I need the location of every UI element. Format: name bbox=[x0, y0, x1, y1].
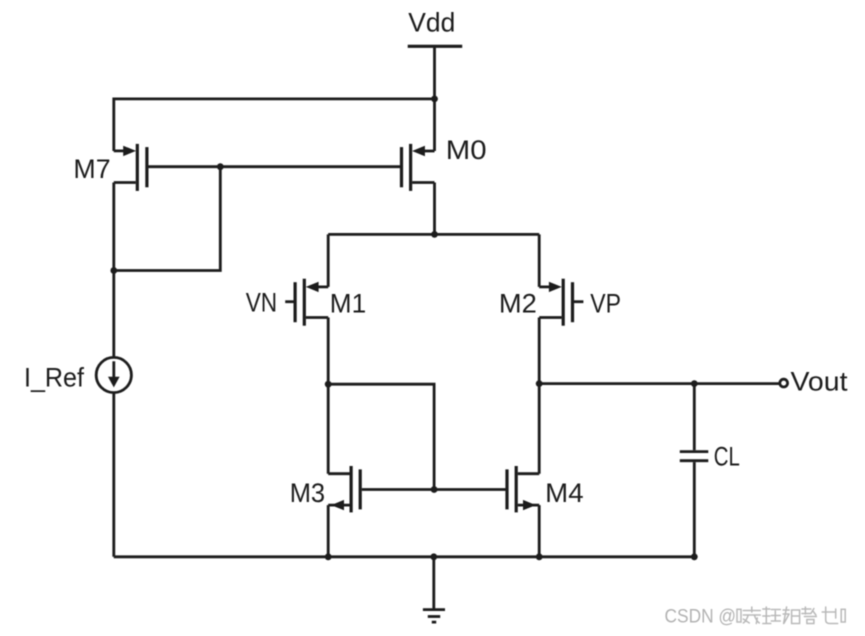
wire top rail bbox=[114, 99, 435, 151]
watermark glyph box 1 bbox=[737, 609, 741, 622]
transistor M3 bbox=[328, 466, 360, 512]
wire M2 source riser bbox=[538, 234, 541, 287]
watermark CSDN bbox=[665, 605, 737, 627]
junction rail / CL branch bbox=[691, 553, 698, 560]
wire M0 source to tail bbox=[433, 183, 436, 235]
svg-text:I_Ref: I_Ref bbox=[24, 362, 84, 392]
wire node A to mirror gates bbox=[328, 384, 434, 489]
svg-text:M1: M1 bbox=[330, 288, 366, 318]
wire M1 source riser bbox=[327, 234, 330, 287]
wire Vdd stem bbox=[433, 46, 436, 100]
junction top rail / Vdd stem bbox=[431, 96, 438, 103]
transistor M0 bbox=[402, 144, 435, 191]
svg-text:Vdd: Vdd bbox=[408, 8, 455, 38]
svg-text:Vout: Vout bbox=[791, 367, 849, 397]
wire M7-M0 gate line bbox=[148, 165, 400, 168]
transistor M1 bbox=[285, 279, 328, 326]
svg-text:VN: VN bbox=[246, 288, 278, 318]
wire tail rail bbox=[328, 233, 539, 236]
junction M1 drain / node A bbox=[325, 381, 332, 388]
wire M2 drain column bbox=[538, 318, 541, 474]
svg-text:CSDN @: CSDN @ bbox=[665, 605, 737, 627]
junction output / CL branch bbox=[691, 380, 698, 387]
ground symbol bbox=[423, 557, 445, 622]
current source I_Ref bbox=[96, 357, 131, 392]
svg-text:M4: M4 bbox=[545, 478, 583, 508]
watermark glyph box 2 bbox=[841, 609, 845, 622]
wire I_Ref to ground rail bbox=[112, 393, 115, 557]
wire ground rail bbox=[114, 555, 695, 558]
svg-text:M0: M0 bbox=[446, 135, 487, 165]
svg-text:VP: VP bbox=[590, 288, 621, 318]
junction rail / M4 source bbox=[536, 553, 543, 560]
wire M0 drain bbox=[433, 99, 436, 151]
transistor M7 bbox=[114, 144, 147, 191]
watermark CJK glyphs bbox=[743, 607, 837, 624]
power Vdd bar symbol bbox=[408, 45, 463, 48]
junction tail rail / M0 source bbox=[431, 231, 438, 238]
svg-text:M3: M3 bbox=[290, 478, 325, 508]
wire M4 source drop bbox=[538, 505, 541, 557]
transistor M4 bbox=[507, 466, 539, 512]
junction gate line / tie-down bbox=[217, 163, 224, 170]
svg-text:CL: CL bbox=[714, 442, 740, 472]
junction rail / M3 source bbox=[325, 553, 332, 560]
wire M3 gate bbox=[362, 488, 506, 491]
transistor M2 bbox=[539, 279, 583, 326]
wire M7 source column bbox=[112, 183, 115, 358]
wire M1 drain column bbox=[327, 318, 330, 474]
capacitor CL bbox=[680, 384, 709, 557]
svg-text:M2: M2 bbox=[499, 288, 537, 318]
junction M2 drain / output bbox=[536, 380, 543, 387]
junction rail / ground stem bbox=[430, 553, 437, 560]
junction M7 source / tie bbox=[110, 267, 117, 274]
wire output line bbox=[539, 382, 779, 385]
terminal Vout bbox=[780, 379, 788, 387]
junction mirror gate / node A bbox=[431, 486, 438, 493]
svg-text:M7: M7 bbox=[73, 154, 110, 184]
wire M3 source drop bbox=[327, 505, 330, 557]
wire gate tie-down bbox=[114, 167, 221, 271]
